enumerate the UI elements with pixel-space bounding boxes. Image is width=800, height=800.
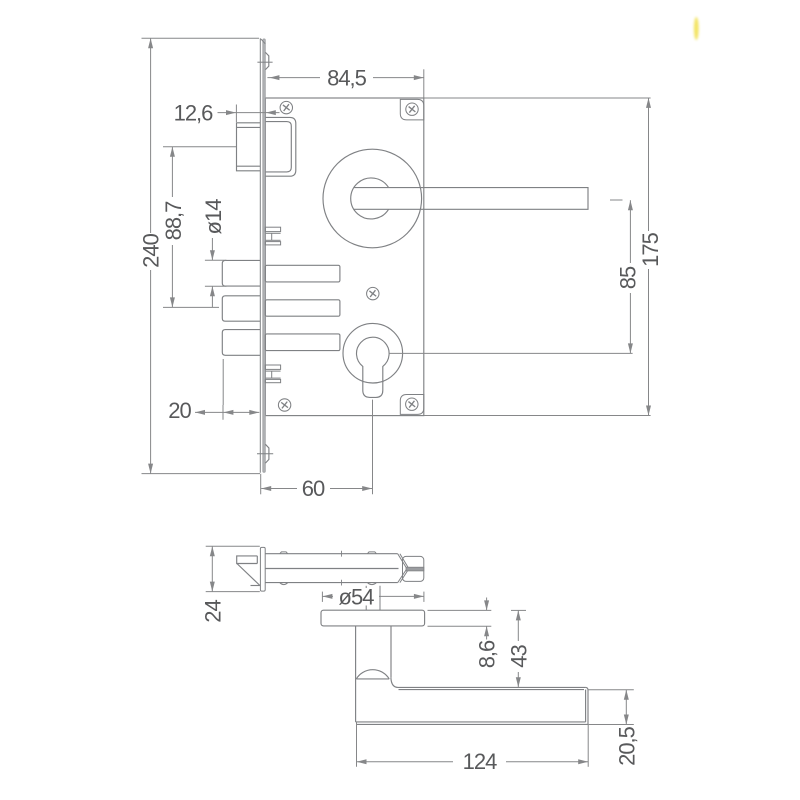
svg-text:60: 60: [302, 476, 325, 501]
svg-text:175: 175: [638, 232, 663, 266]
deadbolt bar 2 inside case: [265, 300, 340, 316]
screw E bottom-right: [406, 398, 418, 410]
handle neck right edge: [390, 626, 392, 678]
handle lever bar: [354, 188, 588, 210]
tail taper top: [398, 554, 407, 569]
neck dome base line: [356, 678, 389, 680]
cylinder rose circle: [343, 323, 403, 383]
dim 88,7 line: [171, 147, 173, 197]
dim 24 extension bottom: [206, 591, 260, 593]
svg-text:124: 124: [463, 749, 497, 774]
dim 24 line: [211, 546, 213, 591]
dim 20,5 extensions: [589, 689, 634, 691]
svg-text:20: 20: [168, 398, 191, 423]
svg-text:88,7: 88,7: [161, 201, 186, 241]
dim 88,7 tick latch center: [163, 146, 236, 148]
screw lug right top: [367, 552, 376, 554]
deadbolt bar 1 inside case: [265, 265, 340, 282]
break tick top: [341, 551, 343, 557]
dim 20,5 line: [625, 690, 627, 725]
bottom tab screw-hole centerline: [257, 453, 273, 455]
elbow fillet: [391, 678, 398, 688]
svg-text:20,5: 20,5: [615, 726, 640, 766]
screw A top-left: [280, 101, 292, 113]
dim 60 extension right: [372, 400, 374, 495]
dim 20 line: [195, 411, 259, 413]
latchbolt ramp: [237, 564, 260, 586]
spring clip upper: [265, 227, 280, 231]
dim 84,5 right extension: [423, 69, 425, 97]
svg-text:ø14: ø14: [201, 199, 226, 235]
lever top edge: [398, 686, 586, 688]
svg-text:85: 85: [616, 266, 641, 289]
dim diam54 line: [322, 595, 333, 597]
dim 43 line: [517, 610, 519, 641]
spring clip lower: [265, 365, 280, 369]
dim 43 tick: [511, 609, 526, 611]
latch guide housing outer: [265, 117, 296, 176]
deadbolt pin 1: [222, 260, 260, 286]
dim 175 line: [648, 98, 650, 231]
dim diam14 tick top: [205, 259, 227, 261]
screw C center: [367, 287, 379, 299]
screw lug right bottom: [367, 583, 376, 585]
dim 85 extension cylinder center: [389, 352, 632, 354]
faceplate front edge line: [259, 38, 261, 472]
dim 85 line: [629, 200, 631, 263]
dim 8,6 extensions: [428, 609, 492, 611]
svg-text:24: 24: [200, 600, 225, 623]
dim 88,7 tick pin center: [163, 306, 219, 308]
faceplate edge-on: [260, 547, 265, 591]
handle rose outer circle: [323, 149, 422, 248]
dim 240 extension bottom: [142, 473, 261, 475]
dim 124 line: [357, 761, 454, 763]
faceplate body (gray strip): [263, 39, 266, 472]
latchbolt (protruding, top): [237, 123, 261, 171]
lever right end: [587, 690, 589, 724]
spindle shaft to rose: [365, 586, 367, 610]
handle hub inner circle: [351, 178, 389, 219]
svg-text:ø54: ø54: [339, 585, 375, 610]
latchbolt head side view: [237, 556, 258, 564]
break tick bottom: [341, 580, 343, 586]
svg-text:240: 240: [139, 233, 164, 267]
screw lug left top: [280, 552, 288, 554]
dim 60 extension left: [260, 474, 262, 495]
dim 124 extensions: [356, 722, 358, 767]
top tab screw-hole centerline: [257, 61, 272, 63]
svg-text:8,6: 8,6: [474, 640, 499, 668]
dim 20 extension: [222, 359, 224, 405]
spindle bar (filled): [406, 567, 424, 571]
deadbolt pin 2: [222, 296, 260, 321]
screw D bottom-left: [278, 399, 290, 411]
dim diam14 tick bottom: [205, 285, 227, 287]
dim 84,5 line: [267, 77, 423, 79]
dim 175 extension top: [424, 97, 651, 99]
svg-text:84,5: 84,5: [327, 66, 367, 91]
handle neck left edge: [355, 626, 357, 722]
svg-text:43: 43: [506, 645, 531, 668]
corner bracket top-right: [400, 99, 424, 120]
deadbolt pin 3: [222, 330, 260, 356]
dim 240 extension top: [142, 37, 260, 39]
screw B top-right: [406, 103, 418, 115]
dim diam14 line upper: [211, 238, 213, 260]
neck dome arc: [356, 670, 389, 679]
dim 240 line: [150, 38, 152, 233]
lever bottom edge: [356, 721, 586, 723]
dim 85 tick handle center: [610, 199, 623, 201]
lock case outline: [265, 98, 423, 416]
deadbolt bar 3 inside case: [265, 334, 340, 351]
svg-text:12,6: 12,6: [174, 101, 214, 126]
dim 12,6 line: [218, 112, 280, 114]
spindle tail box: [403, 556, 424, 581]
euro cylinder profile: [357, 337, 390, 397]
yellow highlight mark: [694, 17, 699, 40]
latch case body edge view: [265, 553, 397, 555]
corner bracket bottom-right: [400, 395, 424, 415]
tail taper bottom: [398, 569, 407, 583]
faceplate bottom screw tab: [265, 444, 269, 463]
dim 24 extension top: [206, 545, 260, 547]
dim 175 extension bottom: [424, 415, 651, 417]
rose side view: [321, 610, 425, 626]
screw lug left bottom: [280, 583, 288, 585]
dim 60 line: [261, 488, 297, 490]
dim 8,6 line: [486, 598, 488, 611]
latch guide housing inner: [265, 122, 291, 172]
faceplate top bevel: [261, 39, 266, 44]
faceplate top screw tab: [265, 52, 268, 69]
